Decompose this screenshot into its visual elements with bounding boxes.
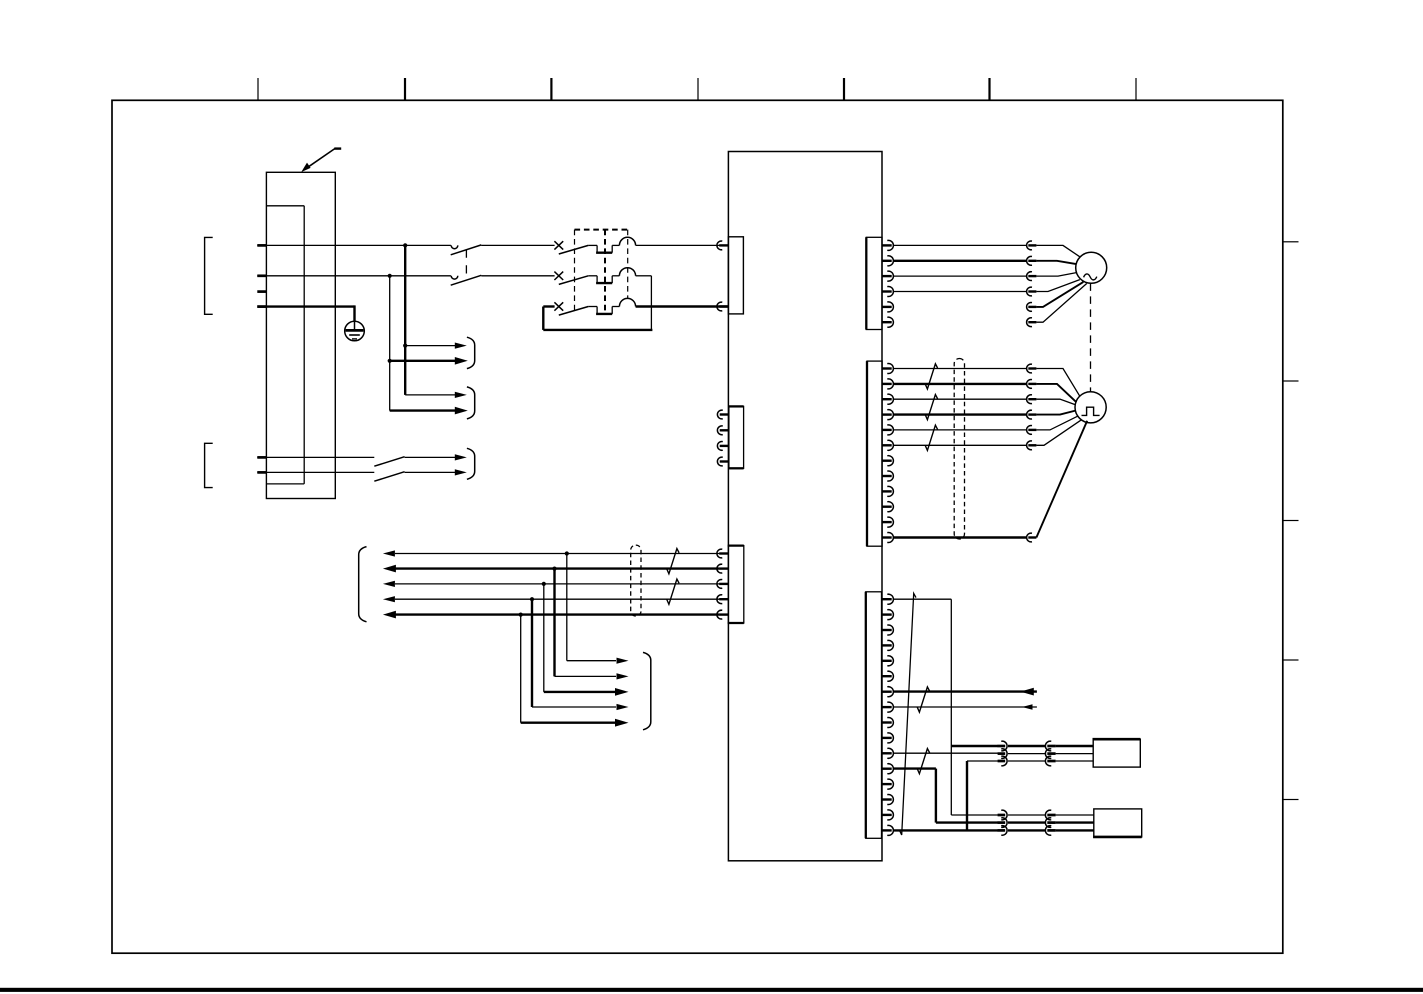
- breaker F1 pole2 blade: [559, 276, 589, 285]
- breaker F1 pole1 blade: [559, 245, 589, 254]
- ground electrode symbol: [345, 321, 365, 341]
- wire L2 from X1 to switch: [257, 275, 451, 277]
- drop vertical 1: [566, 554, 568, 661]
- connector XF body: [866, 592, 882, 839]
- breaker F1 pole2 coil arc: [619, 268, 635, 276]
- out row 5: [521, 722, 616, 724]
- wire aux2 from X1: [257, 471, 374, 473]
- motor fan wire 6: [1036, 284, 1086, 323]
- connector XB pin2: [717, 426, 722, 435]
- arrow out row 5: [615, 719, 629, 727]
- aux switch blade 2: [374, 472, 404, 482]
- lower cable connector pair wire2: [998, 821, 1006, 824]
- encoder B1 circle: [1075, 392, 1106, 423]
- lower cable wire1 to sensor: [1056, 814, 1094, 816]
- lower cable wire2 to sensor: [1056, 821, 1094, 823]
- frame right tick 2: [1283, 380, 1299, 382]
- connector XF pin8: [882, 706, 892, 708]
- connector XF pin7: [882, 691, 892, 693]
- wire L2 switch to breaker: [481, 275, 554, 277]
- connector XF pin1: [882, 598, 892, 600]
- motor hook 6: [1027, 318, 1032, 327]
- terminal stub 4: [257, 305, 266, 308]
- connector XD pin2: [882, 260, 892, 262]
- bracket out rows: [643, 652, 651, 729]
- encoder hook 6: [1027, 441, 1032, 450]
- wire XF16: [894, 829, 998, 831]
- wire PE from X1: [257, 305, 354, 307]
- connector XF pin14: [882, 798, 892, 800]
- connector XB pin4: [717, 457, 722, 466]
- wire pole2 down: [650, 276, 652, 330]
- wire XE6 to encoder: [894, 444, 1027, 446]
- breaker F1 pole2 contact x: [554, 272, 563, 280]
- wire XF12 to lower cable: [936, 821, 998, 823]
- bracket group L1: [205, 237, 213, 314]
- bottom border bar: [0, 988, 1423, 992]
- wire XE4 to encoder: [894, 413, 1027, 415]
- connector XF pin12: [882, 768, 892, 770]
- upper cable wire1 to sensor: [1056, 745, 1094, 747]
- wire XC5 leftward: [395, 613, 719, 615]
- arrow XC2 left: [383, 565, 396, 573]
- wire XF12 right: [894, 767, 936, 769]
- upper cable wire2 to sensor: [1056, 753, 1094, 755]
- connector XD pin1: [882, 244, 892, 246]
- terminal stub 5: [257, 456, 266, 459]
- connector XD pin3: [882, 275, 892, 277]
- bracket aux pair: [467, 448, 475, 479]
- bracket group L2: [205, 443, 213, 487]
- wire PE down: [353, 305, 355, 322]
- controller unit U1 box: [728, 152, 882, 861]
- wire aux2 to arrow: [405, 471, 456, 473]
- connector XE pin11: [882, 521, 892, 523]
- arrow row3: [455, 392, 467, 398]
- switch Q1 pole2 jaw: [451, 276, 458, 279]
- connector XB body: [729, 406, 744, 468]
- frame right tick 3: [1283, 520, 1299, 522]
- bracket XC left: [359, 547, 367, 622]
- wire XC4 leftward: [395, 598, 719, 600]
- connector XA pin2: [717, 302, 722, 311]
- wire XF1 to lower cable: [951, 814, 998, 816]
- motor hook 3: [1027, 272, 1032, 281]
- connector XE pin1: [882, 367, 892, 369]
- connector XE pin4: [882, 413, 892, 415]
- arrow out row 1: [617, 658, 629, 664]
- connector XE pin6: [882, 444, 892, 446]
- encoder hook 5: [1027, 426, 1032, 435]
- frame top tick 5: [843, 78, 845, 100]
- wire breaker pole1 to connector XA pin1: [636, 244, 720, 246]
- wire loop to pole3: [543, 305, 554, 307]
- pair slash XF 11-12: [917, 749, 929, 774]
- arrow out row 4: [617, 704, 629, 710]
- branch up from XF16: [966, 761, 968, 830]
- terminal block X1 inner top: [266, 205, 304, 207]
- junction dot XC wire5: [519, 613, 523, 617]
- connector XC pin5: [717, 610, 722, 619]
- wire XF8: [894, 706, 1037, 708]
- terminal block X1 outer: [266, 172, 335, 498]
- junction dot XC wire3: [542, 582, 546, 586]
- pair slash XC 1-2: [667, 549, 679, 574]
- connector XF pin13: [882, 783, 892, 785]
- upper cable wire3 to sensor: [1056, 760, 1094, 762]
- junction dot XC wire1: [565, 551, 569, 555]
- connector XF pin16: [882, 829, 892, 831]
- motor M1 circle: [1076, 252, 1107, 283]
- wire XD1 to motor: [894, 244, 1027, 246]
- out row 1: [567, 660, 616, 662]
- bracket out pair B: [467, 387, 475, 419]
- connector XE pin2: [882, 383, 892, 385]
- upper cable connector pair wire1: [998, 745, 1006, 748]
- wire aux1 from X1: [257, 456, 374, 458]
- pair slash XC 3-4: [667, 579, 679, 604]
- encoder fan wire 1: [1036, 369, 1080, 397]
- junction dot wire L1: [403, 243, 407, 247]
- encoder fan wire 6: [1036, 420, 1081, 446]
- frame top tick 4: [697, 78, 699, 100]
- connector XE pin10: [882, 506, 892, 508]
- aux switch blade 1: [374, 457, 404, 467]
- terminal stub 1: [257, 244, 266, 247]
- wire pole3 to connector XA pin2: [636, 305, 720, 307]
- encoder fan wire 5: [1036, 416, 1078, 430]
- connector XF pin2: [882, 613, 892, 615]
- encoder fan wire 7: [1036, 421, 1087, 538]
- encoder hook 1: [1027, 364, 1032, 373]
- connector XF pin9: [882, 721, 892, 723]
- junction dot XC wire4: [530, 597, 534, 601]
- arrow XF8 left: [1022, 704, 1033, 710]
- frame top tick 1: [257, 78, 259, 100]
- connector XF pin11: [882, 752, 892, 754]
- drop vertical 2: [553, 569, 555, 677]
- arrow XC3 left: [383, 581, 395, 587]
- encoder fan wire 3: [1036, 399, 1075, 405]
- drop vertical 5: [520, 615, 522, 723]
- tap row4 thick: [390, 409, 456, 411]
- wire XE12 to encoder: [894, 536, 1027, 538]
- breaker F1 dashed mid: [604, 230, 606, 315]
- arrow XC5 left: [383, 611, 396, 619]
- connector XE pin5: [882, 429, 892, 431]
- switch Q1 pole1 jaw: [451, 245, 458, 248]
- breaker F1 pole1 thermal notch: [588, 244, 597, 246]
- switch Q1 link dashes: [465, 250, 467, 276]
- breaker F1 dashed right: [627, 230, 629, 299]
- wire XE2 to encoder: [894, 383, 1027, 385]
- motor fan wire 2: [1036, 261, 1076, 264]
- connector XB pin1: [717, 410, 722, 419]
- upper cable top wire: [951, 745, 998, 747]
- bundle diagonal XF: [900, 593, 917, 835]
- upper cable connector pair wire3: [998, 760, 1006, 763]
- arrow out row 2: [617, 673, 629, 679]
- motor M1 sine symbol: [1084, 274, 1097, 280]
- tap vertical from L2: [389, 276, 391, 411]
- switch Q1 pole2 blade: [451, 275, 482, 285]
- pair slash XE 3-4: [925, 395, 937, 420]
- wire XF11: [894, 752, 998, 754]
- junction dot XC wire2: [552, 567, 556, 571]
- connector XD pin5: [882, 306, 892, 308]
- wire XC2 leftward: [395, 567, 719, 569]
- connector XC pin1: [717, 549, 722, 558]
- junction dot wire L2: [388, 274, 392, 278]
- drop vertical 3: [543, 584, 545, 692]
- junction dot row2: [388, 359, 392, 363]
- bracket out pair A: [467, 337, 475, 368]
- wire XF1 right: [894, 598, 952, 600]
- tap vertical from L1: [404, 245, 406, 395]
- out row 4: [532, 706, 616, 708]
- wire L1 switch to breaker: [481, 244, 554, 246]
- drawing frame border: [112, 100, 1283, 953]
- tap branch row1: [405, 345, 455, 347]
- drop vertical 4: [531, 599, 533, 707]
- motor fan wire 4: [1036, 280, 1079, 292]
- lower cable connector pair wire1: [998, 814, 1006, 817]
- main switch handle Q1: [305, 149, 335, 170]
- terminal block X1 inner vertical: [303, 206, 305, 484]
- motor hook 5: [1027, 302, 1032, 311]
- lower cable wire3 to sensor: [1056, 829, 1094, 831]
- arrow row4: [455, 407, 468, 415]
- wire XD2 to motor: [894, 260, 1027, 262]
- breaker F1 pole3 contact x: [554, 302, 563, 310]
- connector XA body: [728, 237, 743, 314]
- connector XE pin12: [882, 536, 892, 538]
- breaker F1 dashed top: [575, 229, 628, 231]
- connector XF pin5: [882, 660, 892, 662]
- breaker F1 dashed left: [574, 230, 576, 311]
- connector XE body: [867, 361, 882, 546]
- connector XD pin6: [882, 321, 892, 323]
- wire XD4 to motor: [894, 291, 1027, 293]
- wire XE3 to encoder: [894, 398, 1027, 400]
- connector XF pin10: [882, 737, 892, 739]
- arrow aux1: [455, 454, 467, 460]
- connector XE pin9: [882, 490, 892, 492]
- tap row3: [405, 394, 455, 396]
- junction dot row1: [403, 344, 407, 348]
- terminal stub 3: [257, 290, 266, 293]
- encoder hook 2: [1027, 380, 1032, 389]
- wire XE1 to encoder: [894, 368, 1027, 370]
- connector XF pin3: [882, 629, 892, 631]
- motor fan wire 3: [1036, 273, 1076, 277]
- arrow XF7 left: [1020, 688, 1034, 696]
- encoder B1 pulse symbol: [1082, 407, 1100, 415]
- arrow out row 3: [615, 688, 629, 696]
- frame right tick 1: [1283, 241, 1299, 243]
- connector XF pin15: [882, 814, 892, 816]
- shield ellipse XE: [954, 359, 964, 540]
- frame right tick 4: [1283, 659, 1299, 661]
- wire XC1 leftward: [395, 553, 719, 555]
- frame right tick 5: [1283, 799, 1299, 801]
- dashed link motor-encoder: [1090, 283, 1092, 392]
- motor hook 1: [1027, 241, 1032, 250]
- terminal stub 2: [257, 274, 266, 277]
- motor hook 2: [1027, 256, 1032, 265]
- frame top tick 2: [404, 78, 406, 100]
- connector XE pin3: [882, 398, 892, 400]
- breaker F1 pole1 contact x: [554, 241, 563, 249]
- wire loop left up: [542, 307, 544, 330]
- pair slash XF 7-8: [917, 687, 929, 712]
- encoder fan wire 2: [1036, 384, 1076, 402]
- pair slash XE 1-2: [925, 364, 937, 389]
- connector XB pin3: [717, 441, 722, 450]
- connector XA pin1: [717, 241, 722, 250]
- breaker F1 pole3 thermal notch: [588, 306, 597, 308]
- arrow aux2: [455, 469, 467, 475]
- connector XE pin7: [882, 460, 892, 462]
- breaker F1 pole3 blade: [559, 307, 589, 316]
- connector XF pin4: [882, 644, 892, 646]
- wire pole2 out: [636, 275, 652, 277]
- tap row2 thick: [390, 360, 456, 362]
- terminal stub 6: [257, 471, 266, 474]
- sensor S2 box: [1094, 809, 1142, 837]
- connector XD body: [866, 237, 882, 329]
- wire XF7: [894, 690, 1037, 692]
- encoder hook 4: [1027, 410, 1032, 419]
- motor hook 4: [1027, 287, 1032, 296]
- branch to upper cable: [967, 760, 998, 762]
- wire aux1 to arrow: [405, 456, 456, 458]
- connector XF pin6: [882, 675, 892, 677]
- wire XD3 to motor: [894, 275, 1027, 277]
- wire XE5 to encoder: [894, 429, 1027, 431]
- connector XC body: [728, 546, 743, 623]
- connector XC pin3: [717, 579, 722, 588]
- sensor S1 box: [1093, 739, 1140, 767]
- breaker F1 pole1 coil arc: [619, 237, 635, 245]
- wire XF1 down: [950, 599, 952, 815]
- arrow XC4 left: [383, 596, 395, 602]
- wire XF12 down: [935, 769, 937, 823]
- wire loop bottom: [543, 329, 652, 331]
- encoder hook 7: [1027, 533, 1032, 542]
- out row 2: [555, 675, 617, 677]
- shield ellipse XC: [631, 545, 641, 616]
- wire XC3 leftward: [395, 583, 719, 585]
- frame top tick 3: [550, 78, 552, 100]
- upper cable connector pair wire2: [998, 752, 1006, 755]
- terminal block X1 inner bottom: [266, 483, 304, 485]
- motor fan wire 1: [1036, 245, 1080, 257]
- connector XD pin4: [882, 290, 892, 292]
- breaker F1 pole3 coil arc: [619, 298, 635, 306]
- encoder hook 3: [1027, 395, 1032, 404]
- motor fan wire 5: [1036, 282, 1083, 307]
- pair slash XE 5-6: [925, 425, 937, 450]
- encoder fan wire 4: [1036, 411, 1076, 415]
- frame top tick 7: [1135, 78, 1137, 100]
- connector XC pin2: [717, 564, 722, 573]
- out row 3: [544, 691, 616, 693]
- arrow XC1 left: [383, 550, 395, 556]
- connector XE pin8: [882, 475, 892, 477]
- connector XC pin4: [717, 595, 722, 604]
- frame top tick 6: [988, 78, 990, 100]
- breaker F1 pole2 thermal notch: [588, 275, 597, 277]
- arrow row1: [455, 343, 467, 349]
- lower cable connector pair wire3: [998, 829, 1006, 832]
- switch Q1 pole1 blade: [451, 245, 482, 255]
- wire L1 from X1 to switch: [257, 244, 451, 246]
- arrow row2: [455, 357, 468, 365]
